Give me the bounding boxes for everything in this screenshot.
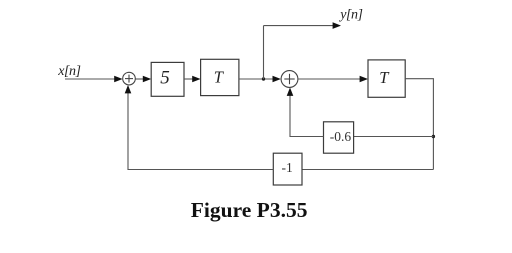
wire T1 to summer S2 (239, 78, 275, 80)
wire feedback column to gain block -1 (302, 169, 433, 171)
gain block 5 (151, 62, 184, 96)
svg-text:-1: -1 (282, 160, 293, 175)
delay block T2 (368, 60, 405, 97)
wire -0.6 to S2 bottom (290, 94, 324, 137)
wire T2 output right and down (405, 79, 433, 170)
wire block 5 to delay T1 (184, 78, 194, 80)
gain block -0.6 (324, 122, 354, 153)
summing junction S2 (281, 71, 298, 88)
summing junction S1 (123, 72, 136, 85)
svg-text:Figure P3.55: Figure P3.55 (191, 198, 308, 222)
wire input x[n] to summer S1 (65, 78, 116, 80)
svg-text:-0.6: -0.6 (330, 129, 352, 144)
wire S1 to gain block 5 (135, 78, 145, 80)
wire S2 to delay T2 (298, 78, 362, 80)
gain block -1 (273, 153, 302, 185)
svg-text:y[n]: y[n] (338, 7, 362, 22)
svg-text:5: 5 (160, 68, 170, 89)
wire junction to gain block -0.6 (354, 136, 434, 138)
node junction dot on feedback column (432, 135, 435, 138)
svg-text:x[n]: x[n] (57, 64, 80, 79)
wire -1 to S1 bottom (128, 92, 273, 170)
delay block T1 (201, 59, 239, 95)
node junction dot after T1 (262, 77, 265, 80)
wire top branch to y[n] output arrow (264, 25, 335, 27)
wire junction up to top branch (263, 26, 265, 79)
